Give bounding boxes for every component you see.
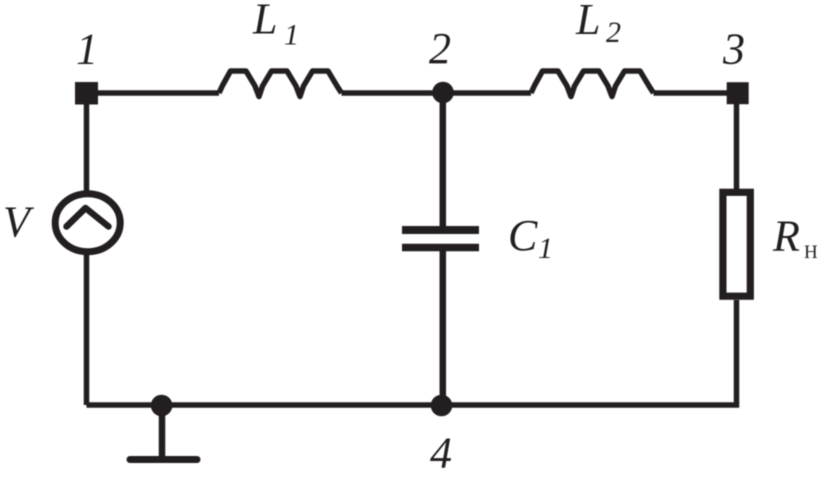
svg-text:C: C — [508, 211, 538, 260]
svg-text:2: 2 — [429, 24, 451, 73]
svg-text:R: R — [772, 212, 800, 261]
svg-text:L: L — [575, 0, 600, 44]
capacitor C1 bottom plate — [402, 244, 479, 252]
svg-text:1: 1 — [284, 18, 299, 51]
voltage source V circle — [55, 194, 120, 252]
node 3 terminal square — [727, 82, 749, 104]
voltage source V inner caret — [67, 208, 109, 227]
svg-text:1: 1 — [76, 25, 98, 74]
svg-text:1: 1 — [538, 232, 553, 265]
svg-text:3: 3 — [722, 25, 745, 74]
wire: node 3 down to resistor — [734, 104, 740, 190]
svg-text:H: H — [804, 242, 818, 263]
svg-text:V: V — [3, 198, 35, 247]
ground junction dot — [151, 395, 173, 417]
capacitor C1 top plate — [402, 226, 479, 234]
resistor RH body — [723, 192, 750, 296]
svg-text:2: 2 — [606, 16, 621, 49]
wire: source V down to bottom-left corner — [84, 252, 90, 405]
wire: L1 to node 2 to L2 — [342, 90, 532, 96]
ground bar — [130, 456, 197, 463]
wire: bottom rail and right riser up to resistor — [87, 300, 737, 405]
inductor L2 — [531, 71, 654, 97]
wire: node 1 down to source V — [84, 93, 90, 191]
wire: L2 to node 3 — [654, 90, 738, 96]
wire: node 2 down through capacitor C1 — [440, 93, 447, 227]
svg-text:4: 4 — [430, 429, 452, 478]
node 2 junction dot — [432, 82, 454, 104]
svg-text:L: L — [252, 0, 277, 43]
node 4 junction dot — [431, 395, 453, 417]
wire top-left: node 1 to L1 — [87, 90, 220, 96]
ground stub — [159, 405, 166, 457]
node 1 terminal square — [75, 82, 98, 105]
wire: capacitor C1 to node 4 — [440, 251, 447, 405]
inductor L1 — [219, 71, 342, 97]
